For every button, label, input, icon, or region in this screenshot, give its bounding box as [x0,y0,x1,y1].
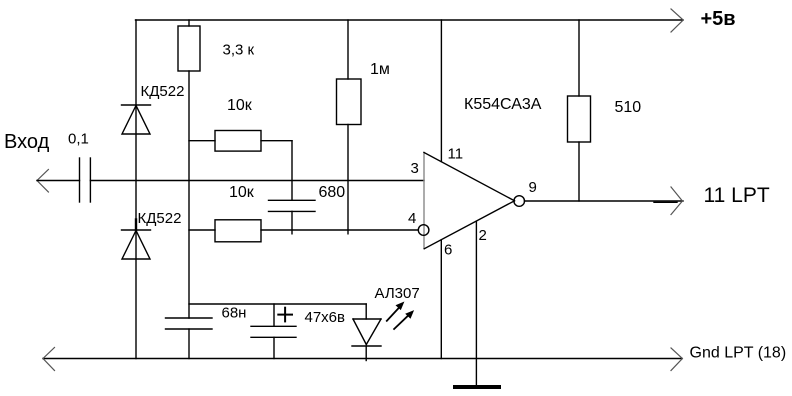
capacitor C1 0,1 [80,158,91,202]
svg-text:3: 3 [411,160,419,177]
svg-text:2: 2 [479,227,487,244]
wire 680 bottom lead [291,211,293,233]
resistor R2 10k upper [189,131,292,152]
svg-text:4: 4 [408,210,416,227]
svg-text:10к: 10к [227,97,253,114]
svg-text:КД522: КД522 [138,210,182,227]
svg-text:11: 11 [448,146,464,163]
svg-text:11 LPT: 11 LPT [704,184,770,207]
svg-text:3,3 к: 3,3 к [223,42,255,59]
capacitor C4 47x6v electrolytic [251,304,296,359]
resistor R1 3,3k [178,20,200,71]
capacitor C2 680 [269,200,316,211]
capacitor C3 68n [166,318,213,329]
node ground-rail right arrow [671,348,682,371]
op-amp U1 K554CA3A comparator triangle [424,153,515,249]
node pin4 inverting bubble [418,225,429,236]
diode VD2 KD522 lower [122,220,151,260]
svg-text:510: 510 [615,99,642,116]
wire main middle column [188,71,190,359]
wire low-pass branch horizontal [189,303,366,305]
diode VD1 KD522 upper [122,105,151,134]
wire 680 top lead [291,141,293,201]
svg-text:КД522: КД522 [141,83,185,100]
wire ground bottom rail [43,358,682,360]
svg-text:680: 680 [319,184,346,201]
wire output 11 LPT [525,201,684,202]
wire +5v top rail [136,19,684,21]
node ground-rail left arrow [43,348,55,371]
svg-text:6: 6 [444,242,452,259]
node C4 plus polarity mark [278,308,292,322]
svg-text:1м: 1м [370,61,390,78]
svg-text:АЛ307: АЛ307 [375,285,420,302]
wire pin 2 to ground symbol [475,222,477,387]
svg-text:Вход: Вход [4,131,50,153]
node LED emission arrows [387,302,414,330]
svg-text:К554СА3А: К554СА3А [464,96,542,113]
wire input to pin3 [90,180,424,182]
node pin9 output bubble [514,196,525,207]
wire pin 11 to +5v [440,20,442,162]
wire pin4 net [261,229,418,231]
svg-text:10к: 10к [229,184,255,201]
svg-text:Gnd LPT (18): Gnd LPT (18) [690,345,787,362]
wire input left segment [37,180,80,182]
ground [455,385,499,389]
node +5v arrow [671,9,683,32]
svg-text:0,1: 0,1 [68,130,89,147]
svg-text:+5в: +5в [701,8,736,30]
node output arrow [671,187,682,215]
resistor R3 10k lower [189,220,261,242]
resistor R5 510 [568,20,591,201]
wire pin 6 to ground rail [440,240,442,359]
LED VD3 AL307 [352,304,381,361]
svg-text:9: 9 [529,179,537,196]
svg-text:68н: 68н [222,305,247,322]
node input arrow [37,170,48,193]
svg-text:47х6в: 47х6в [305,309,346,326]
wire left vertical branch [135,20,137,359]
resistor R4 1M [337,20,362,234]
